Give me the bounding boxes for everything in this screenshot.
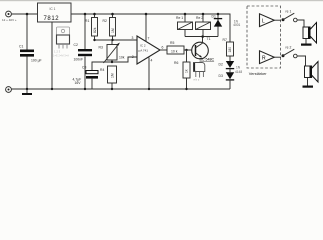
svg-text:10k: 10k [119, 56, 125, 60]
svg-text:2: 2 [132, 55, 134, 59]
svg-text:IC 2: IC 2 [140, 44, 146, 48]
svg-text:Re 2: Re 2 [196, 16, 203, 20]
svg-text:T1: T1 [207, 37, 211, 41]
svg-text:R: R [262, 56, 266, 62]
svg-text:µA 741: µA 741 [139, 49, 149, 53]
svg-text:L: L [262, 19, 265, 25]
svg-text:D1: D1 [212, 15, 216, 19]
svg-text:D3: D3 [219, 74, 223, 78]
svg-text:82k: 82k [93, 27, 97, 33]
svg-text:R4: R4 [100, 68, 104, 72]
svg-text:7: 7 [148, 37, 150, 41]
svg-text:R1: R1 [85, 19, 89, 23]
svg-text:C1: C1 [19, 45, 23, 49]
svg-text:R5: R5 [170, 41, 174, 45]
svg-text:1 2 3: 1 2 3 [54, 50, 61, 54]
svg-text:R7: R7 [223, 38, 227, 42]
svg-text:re 1: re 1 [286, 10, 292, 14]
svg-text:1M: 1M [111, 73, 115, 78]
svg-text:R2: R2 [103, 19, 107, 23]
svg-text:12 + 40V +: 12 + 40V + [2, 18, 17, 22]
svg-text:6: 6 [162, 46, 164, 50]
svg-text:1M: 1M [111, 28, 115, 33]
svg-text:D2: D2 [219, 63, 223, 67]
svg-text:100nF: 100nF [74, 57, 84, 61]
svg-text:16V: 16V [75, 81, 82, 85]
svg-text:4148: 4148 [235, 70, 242, 74]
svg-text:1=E 2=M 3=A: 1=E 2=M 3=A [53, 54, 69, 58]
svg-text:e b c: e b c [194, 78, 200, 82]
svg-text:Re 1: Re 1 [176, 16, 183, 20]
svg-text:10 k: 10 k [171, 50, 178, 54]
svg-text:180: 180 [228, 47, 232, 53]
svg-text:1k: 1k [185, 69, 189, 73]
svg-text:3: 3 [132, 36, 134, 40]
svg-text:C2: C2 [74, 43, 78, 47]
svg-text:4001: 4001 [233, 23, 240, 27]
svg-text:7812: 7812 [44, 16, 60, 22]
svg-text:100 µF: 100 µF [31, 58, 42, 62]
svg-text:Verstärker: Verstärker [249, 71, 267, 76]
svg-text:C3: C3 [82, 66, 86, 70]
svg-text:R6: R6 [174, 61, 178, 65]
svg-text:1N: 1N [236, 65, 241, 69]
svg-text:IC 1: IC 1 [50, 7, 56, 11]
svg-text:re 2: re 2 [286, 46, 292, 50]
svg-text:R3: R3 [99, 46, 103, 50]
svg-text:4: 4 [151, 59, 153, 63]
svg-text:BC 548C: BC 548C [200, 58, 215, 62]
